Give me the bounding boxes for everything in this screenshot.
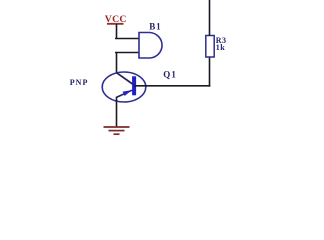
wire VCC to B1 pin 1: [116, 24, 118, 39]
wire R3 bottom segment: [209, 57, 211, 87]
transistor Q1 emitter stroke: [116, 90, 132, 97]
buzzer B1 pin 1: [115, 38, 139, 40]
power symbol VCC: [105, 14, 127, 25]
transistor Q1 emitter arrow (PNP, points to base): [123, 90, 132, 96]
wire Q1 base to R3: [134, 85, 210, 87]
transistor Q1 base bar: [132, 76, 136, 95]
wire B1 pin 2 to Q1 collector: [116, 53, 118, 73]
transistor Q1 body ellipse: [102, 72, 146, 102]
wire R3 top to edge: [209, 0, 211, 36]
buzzer B1 pin 2: [115, 52, 139, 54]
wire Q1 emitter to ground: [116, 98, 118, 127]
svg-text:1k: 1k: [216, 43, 225, 52]
ground: [104, 127, 130, 134]
svg-text:PNP: PNP: [70, 78, 89, 87]
resistor R3 body: [206, 36, 214, 58]
svg-text:B1: B1: [149, 21, 161, 31]
svg-text:Q1: Q1: [163, 69, 177, 79]
buzzer B1 body: [139, 33, 162, 59]
transistor Q1 collector stroke: [116, 72, 133, 84]
